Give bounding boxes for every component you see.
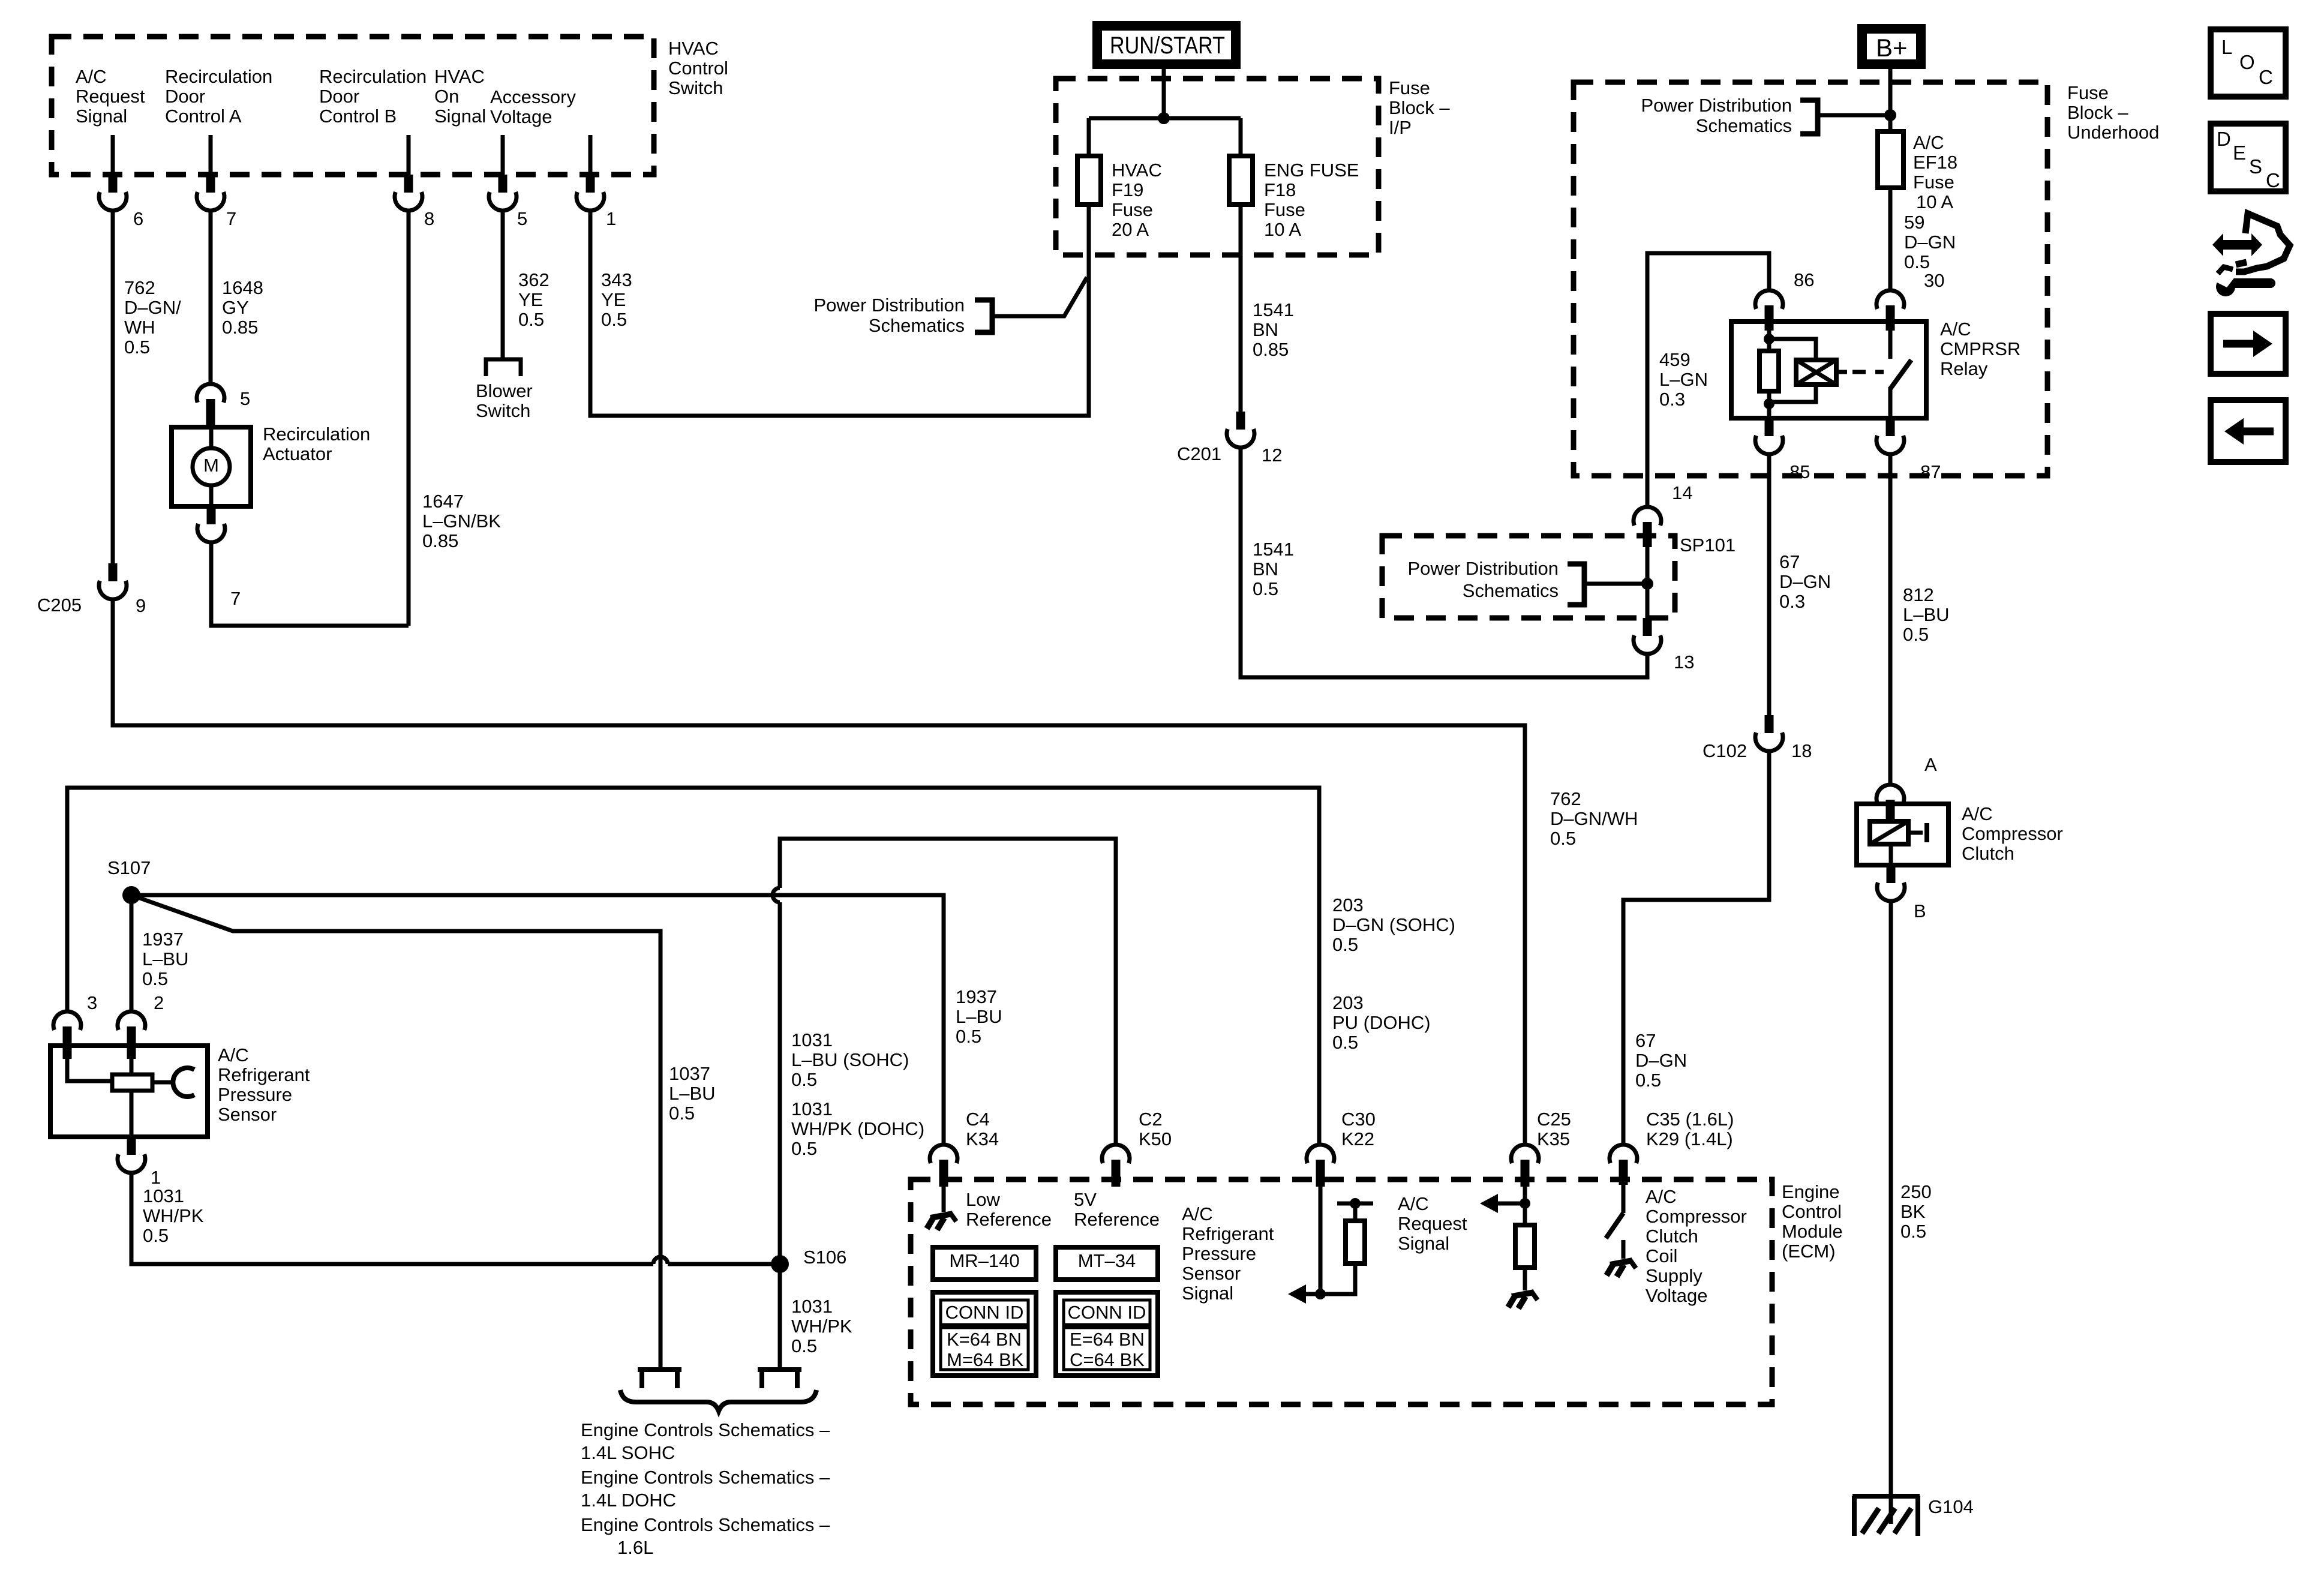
- junction C30: [1315, 1289, 1326, 1299]
- icon arrow right box: [2211, 314, 2286, 374]
- svg-text:1031: 1031: [791, 1029, 833, 1050]
- HVAC Control Switch dashed box: [52, 37, 654, 175]
- connector C102 pin 18: [1765, 715, 1774, 733]
- RUN/START box: [1097, 26, 1236, 64]
- svg-text:0.3: 0.3: [1659, 389, 1685, 410]
- wire 762 D-GN/WH to ECM C25: [113, 599, 1525, 1145]
- svg-text:Recirculation: Recirculation: [165, 66, 272, 87]
- svg-text:0.5: 0.5: [1550, 828, 1576, 849]
- connector relay pin 87: [1886, 418, 1895, 436]
- svg-text:Sensor: Sensor: [218, 1104, 277, 1125]
- svg-text:D–GN: D–GN: [1635, 1050, 1687, 1071]
- svg-text:Signal: Signal: [434, 106, 486, 127]
- svg-text:0.5: 0.5: [601, 309, 627, 330]
- wire 1648 pin7 down to actuator: [209, 211, 213, 384]
- svg-text:L–BU (SOHC): L–BU (SOHC): [791, 1049, 909, 1070]
- svg-text:D–GN/: D–GN/: [124, 297, 181, 318]
- svg-text:A/C: A/C: [1398, 1193, 1429, 1214]
- connector relay pin 85: [1765, 418, 1774, 436]
- svg-text:D–GN: D–GN: [1779, 571, 1831, 592]
- junction B+ feed: [1884, 109, 1896, 121]
- brace: [620, 1390, 816, 1411]
- svg-text:L–BU: L–BU: [1903, 604, 1950, 625]
- svg-text:0.5: 0.5: [1904, 251, 1930, 272]
- svg-text:Refrigerant: Refrigerant: [1182, 1223, 1274, 1244]
- svg-text:0.5: 0.5: [1903, 624, 1929, 645]
- wire 1937 S107 to sensor pin 2: [130, 895, 134, 1011]
- wire to F19 fuse: [1087, 118, 1091, 156]
- wire 1031 sensor pin1 to S106 with hop: [131, 1173, 653, 1264]
- ground G104: [1852, 1494, 1920, 1499]
- svg-text:59: 59: [1904, 212, 1924, 233]
- svg-text:0.85: 0.85: [222, 317, 258, 338]
- svg-text:D–GN (SOHC): D–GN (SOHC): [1332, 914, 1455, 935]
- svg-text:WH: WH: [124, 317, 155, 338]
- svg-text:Low: Low: [966, 1189, 1000, 1210]
- wire 362 pin5 down to blower switch: [501, 211, 505, 358]
- junction relay coil top: [1764, 334, 1774, 344]
- svg-text:C30: C30: [1341, 1109, 1376, 1130]
- svg-text:Fuse: Fuse: [1112, 199, 1153, 220]
- svg-text:BN: BN: [1253, 319, 1278, 340]
- svg-text:C4: C4: [966, 1109, 990, 1130]
- connector clutch pin A: [1876, 785, 1904, 803]
- connector SP101 pin 13: [1643, 618, 1652, 636]
- svg-text:M=64 BK: M=64 BK: [947, 1349, 1024, 1370]
- A/C refrigerant pressure sensor: [50, 1046, 208, 1137]
- svg-text:D: D: [2217, 128, 2231, 150]
- svg-text:Voltage: Voltage: [490, 106, 552, 127]
- junction pull-up top: [1350, 1198, 1361, 1209]
- ground A/C request pulldown: [1512, 1292, 1534, 1296]
- svg-text:Voltage: Voltage: [1646, 1285, 1707, 1306]
- svg-text:1037: 1037: [669, 1063, 710, 1084]
- svg-text:5: 5: [517, 208, 527, 229]
- fuse block I/P dashed box: [1056, 79, 1379, 255]
- svg-text:Power Distribution: Power Distribution: [1641, 95, 1792, 116]
- svg-text:Reference: Reference: [966, 1209, 1052, 1230]
- connector ECM C4 K34: [930, 1145, 957, 1163]
- splice S107: [122, 886, 140, 904]
- svg-text:PU (DOHC): PU (DOHC): [1332, 1012, 1431, 1033]
- svg-text:Compressor: Compressor: [1646, 1206, 1747, 1227]
- connector relay pin 30: [1876, 290, 1904, 309]
- svg-text:812: 812: [1903, 584, 1934, 605]
- connector sensor pin 1: [127, 1137, 136, 1155]
- svg-text:Pressure: Pressure: [1182, 1243, 1256, 1264]
- wire actuator pin7 to control B: [211, 542, 409, 626]
- svg-text:1648: 1648: [222, 277, 263, 298]
- svg-text:CONN ID: CONN ID: [1068, 1302, 1146, 1323]
- box CONN ID right: [1056, 1292, 1158, 1376]
- svg-text:BN: BN: [1253, 559, 1278, 580]
- connector actuator pin 5: [197, 384, 224, 403]
- ECM dashed box: [911, 1179, 1772, 1404]
- connector ECM C35/K29: [1610, 1145, 1637, 1163]
- svg-text:762: 762: [124, 277, 155, 298]
- wire tag pointer to F19 feed: [992, 277, 1087, 316]
- svg-text:Schematics: Schematics: [1463, 580, 1559, 601]
- C30 internal network: [1319, 1187, 1323, 1294]
- terminal to engine controls (1037): [638, 1367, 681, 1372]
- svg-text:Fuse: Fuse: [2067, 82, 2109, 103]
- svg-text:85: 85: [1789, 461, 1810, 482]
- svg-text:0.5: 0.5: [791, 1335, 817, 1356]
- svg-text:(ECM): (ECM): [1782, 1241, 1836, 1262]
- svg-text:Block –: Block –: [2067, 102, 2128, 123]
- svg-text:5: 5: [240, 388, 250, 409]
- svg-text:1031: 1031: [791, 1098, 833, 1119]
- svg-text:0.5: 0.5: [956, 1026, 981, 1047]
- svg-text:1541: 1541: [1253, 299, 1294, 320]
- relay coil: [1769, 339, 1816, 360]
- svg-text:I/P: I/P: [1389, 117, 1412, 138]
- svg-text:D–GN: D–GN: [1904, 232, 1956, 253]
- svg-text:A/C: A/C: [1182, 1203, 1213, 1224]
- svg-text:7: 7: [226, 208, 236, 229]
- svg-text:L–GN/BK: L–GN/BK: [422, 511, 501, 532]
- svg-text:762: 762: [1550, 788, 1581, 809]
- svg-text:Power Distribution: Power Distribution: [813, 295, 965, 316]
- svg-text:1647: 1647: [422, 491, 464, 512]
- svg-text:Engine Controls Schematics –: Engine Controls Schematics –: [581, 1467, 830, 1488]
- svg-text:L–BU: L–BU: [956, 1006, 1002, 1027]
- junction C25: [1520, 1198, 1530, 1209]
- svg-text:Sensor: Sensor: [1182, 1263, 1241, 1284]
- svg-text:13: 13: [1674, 652, 1694, 673]
- svg-text:20 A: 20 A: [1112, 219, 1149, 240]
- svg-text:C35 (1.6L): C35 (1.6L): [1646, 1109, 1734, 1130]
- connector C201 pin 12: [1236, 412, 1245, 430]
- svg-text:0.5: 0.5: [1635, 1070, 1661, 1091]
- connector SP101 pin 14: [1634, 507, 1661, 526]
- svg-text:12: 12: [1262, 445, 1282, 466]
- fuse F18 ENG FUSE 10A: [1229, 156, 1253, 205]
- relay A/C CMPRSR: [1731, 322, 1926, 418]
- svg-text:O: O: [2239, 51, 2255, 73]
- svg-text:0.5: 0.5: [791, 1138, 817, 1159]
- svg-text:Signal: Signal: [1398, 1233, 1449, 1254]
- svg-text:C: C: [2266, 169, 2280, 191]
- C25 internal network: [1523, 1187, 1527, 1225]
- svg-text:WH/PK: WH/PK: [143, 1205, 204, 1226]
- connector ECM C25 K35: [1511, 1145, 1539, 1163]
- svg-text:0.5: 0.5: [142, 968, 168, 989]
- svg-text:F18: F18: [1264, 179, 1296, 200]
- svg-text:WH/PK (DOHC): WH/PK (DOHC): [791, 1118, 924, 1139]
- ground low reference: [930, 1214, 953, 1218]
- wire tag pointer to SP101: [1584, 582, 1647, 586]
- splice S106: [771, 1255, 789, 1273]
- svg-text:0.3: 0.3: [1779, 591, 1805, 612]
- svg-text:S107: S107: [107, 857, 151, 878]
- svg-text:CONN ID: CONN ID: [945, 1302, 1024, 1323]
- connector pin 6: [109, 175, 118, 193]
- svg-text:Engine Controls Schematics –: Engine Controls Schematics –: [581, 1514, 830, 1535]
- svg-text:67: 67: [1635, 1030, 1656, 1051]
- sensor internal network: [67, 1050, 112, 1081]
- svg-text:Control A: Control A: [165, 106, 242, 127]
- svg-text:0.85: 0.85: [1253, 339, 1289, 360]
- svg-text:Clutch: Clutch: [1962, 843, 2014, 864]
- C35 switch to ground: [1622, 1173, 1626, 1213]
- connector sensor pin 3: [53, 1011, 81, 1030]
- svg-text:343: 343: [601, 269, 632, 290]
- svg-text:86: 86: [1794, 269, 1814, 290]
- svg-text:E: E: [2233, 142, 2246, 164]
- svg-text:K22: K22: [1341, 1128, 1374, 1149]
- junction RUN/START bus: [1158, 112, 1170, 124]
- svg-text:1031: 1031: [791, 1296, 833, 1317]
- svg-text:GY: GY: [222, 297, 249, 318]
- svg-text:362: 362: [518, 269, 550, 290]
- wire pin stub inside HVAC switch: [209, 135, 213, 175]
- wire 459 L-GN relay coil feed: [1647, 253, 1769, 507]
- wire 67 D-GN to ECM C35: [1623, 751, 1769, 1145]
- ground clutch coil driver: [1610, 1260, 1632, 1265]
- svg-text:8: 8: [424, 208, 434, 229]
- svg-text:Fuse: Fuse: [1389, 77, 1430, 98]
- box MT-34: [1056, 1247, 1158, 1280]
- svg-text:MR–140: MR–140: [949, 1250, 1019, 1271]
- fuse block underhood dashed box: [1574, 82, 2047, 476]
- svg-text:L: L: [2221, 36, 2232, 58]
- connector pin 7: [206, 175, 215, 193]
- svg-text:C201: C201: [1177, 443, 1221, 464]
- wire 343 YE pin1 to HVAC F19 fuse: [590, 207, 1089, 416]
- svg-text:203: 203: [1332, 992, 1364, 1013]
- svg-text:30: 30: [1924, 270, 1944, 291]
- svg-text:10 A: 10 A: [1916, 191, 1953, 212]
- svg-text:0.5: 0.5: [143, 1225, 169, 1246]
- svg-text:EF18: EF18: [1913, 152, 1957, 173]
- svg-text:Reference: Reference: [1074, 1209, 1160, 1230]
- svg-text:A/C: A/C: [1940, 319, 1971, 340]
- box CONN ID left: [933, 1292, 1036, 1376]
- svg-text:C: C: [2259, 66, 2273, 88]
- svg-text:SP101: SP101: [1680, 535, 1736, 556]
- wire 67 D-GN relay 85 down: [1767, 454, 1771, 715]
- splice SP101 internal wire: [1646, 546, 1650, 618]
- svg-text:C=64 BK: C=64 BK: [1070, 1349, 1145, 1370]
- wire pin stub inside HVAC switch: [501, 135, 505, 175]
- svg-text:18: 18: [1791, 740, 1812, 761]
- svg-text:2: 2: [154, 992, 164, 1013]
- svg-text:Blower: Blower: [476, 380, 533, 401]
- svg-text:K50: K50: [1139, 1128, 1172, 1149]
- svg-text:K=64 BN: K=64 BN: [947, 1329, 1022, 1350]
- wire 812 L-BU relay 87 down: [1888, 454, 1893, 785]
- svg-text:Control B: Control B: [319, 106, 397, 127]
- svg-text:Control: Control: [668, 58, 728, 79]
- clutch coil: [1889, 821, 1893, 824]
- svg-text:Actuator: Actuator: [263, 443, 332, 464]
- svg-text:RUN/START: RUN/START: [1110, 32, 1225, 59]
- connector relay pin 86: [1755, 290, 1783, 309]
- svg-text:1.4L DOHC: 1.4L DOHC: [581, 1490, 676, 1511]
- svg-text:Request: Request: [1398, 1213, 1467, 1234]
- svg-text:Door: Door: [165, 86, 205, 107]
- svg-text:7: 7: [230, 588, 241, 609]
- svg-text:9: 9: [136, 595, 146, 616]
- wire RUN/START feed: [1162, 67, 1166, 118]
- svg-text:Refrigerant: Refrigerant: [218, 1064, 310, 1085]
- connector ECM C2 K50: [1102, 1145, 1130, 1163]
- svg-text:14: 14: [1672, 482, 1692, 503]
- svg-text:E=64 BN: E=64 BN: [1070, 1329, 1145, 1350]
- svg-text:WH/PK: WH/PK: [791, 1316, 852, 1337]
- svg-text:A/C: A/C: [1646, 1186, 1677, 1207]
- wire 762 pin6 down to C205: [111, 211, 115, 563]
- relay coil resistor: [1767, 331, 1771, 351]
- svg-text:C2: C2: [1139, 1109, 1163, 1130]
- svg-text:Relay: Relay: [1940, 358, 1988, 379]
- wire 1541 BN to SP101 pin 13: [1241, 448, 1647, 677]
- wire 1037 L-BU S107 to engine controls: [131, 895, 660, 1370]
- svg-text:CMPRSR: CMPRSR: [1940, 338, 2020, 359]
- connector ECM C30 K22: [1307, 1145, 1334, 1163]
- svg-text:A: A: [1924, 754, 1937, 775]
- wire actuator internal top: [209, 427, 214, 449]
- wire pin stub inside HVAC switch: [407, 135, 411, 175]
- wire 250 BK to G104: [1889, 901, 1893, 1524]
- svg-text:Compressor: Compressor: [1962, 823, 2063, 844]
- svg-text:Control: Control: [1782, 1201, 1842, 1222]
- arrow sensor signal: [1288, 1284, 1306, 1304]
- svg-text:203: 203: [1332, 894, 1364, 915]
- svg-text:Engine Controls Schematics –: Engine Controls Schematics –: [581, 1419, 830, 1440]
- svg-text:Schematics: Schematics: [1696, 115, 1792, 136]
- recirculation actuator M1: [172, 427, 251, 506]
- junction relay coil bottom: [1764, 398, 1774, 409]
- wire pin stub inside HVAC switch: [588, 135, 593, 175]
- svg-text:Fuse: Fuse: [1913, 172, 1954, 193]
- svg-text:S: S: [2249, 155, 2262, 178]
- box MR-140: [933, 1247, 1036, 1280]
- icon DESC box: [2211, 124, 2286, 191]
- svg-text:A/C: A/C: [1913, 132, 1944, 153]
- wire 1647 pin8 down: [407, 211, 411, 626]
- B+ box: [1862, 29, 1921, 64]
- svg-text:A/C: A/C: [1962, 803, 1993, 824]
- svg-text:0.85: 0.85: [422, 530, 458, 551]
- wire S106 riser to ECM C2 with hop: [778, 902, 782, 1264]
- wire tag pointer to B+ feed: [1818, 113, 1890, 118]
- svg-text:L–BU: L–BU: [142, 948, 189, 969]
- svg-text:Supply: Supply: [1646, 1265, 1703, 1286]
- svg-text:D–GN/WH: D–GN/WH: [1550, 808, 1638, 829]
- svg-text:1: 1: [151, 1167, 161, 1188]
- svg-text:Underhood: Underhood: [2067, 122, 2159, 143]
- splice SP101 dashed box: [1382, 536, 1675, 618]
- svg-text:C205: C205: [37, 595, 82, 616]
- svg-text:Pressure: Pressure: [218, 1084, 292, 1105]
- svg-text:MT–34: MT–34: [1078, 1250, 1136, 1271]
- svg-text:0.5: 0.5: [1900, 1221, 1926, 1242]
- connector sensor pin 2: [118, 1011, 145, 1030]
- wire pin stub inside HVAC switch: [111, 135, 115, 175]
- svg-text:Recirculation: Recirculation: [263, 424, 370, 445]
- svg-text:1.4L SOHC: 1.4L SOHC: [581, 1442, 675, 1463]
- connector C205 pin 9: [109, 563, 118, 581]
- svg-text:1.6L: 1.6L: [617, 1537, 653, 1558]
- svg-text:459: 459: [1659, 349, 1691, 370]
- icon wrench/harness: [2212, 233, 2262, 256]
- svg-text:HVAC: HVAC: [668, 38, 719, 59]
- svg-text:87: 87: [1920, 461, 1941, 482]
- svg-text:250: 250: [1900, 1181, 1932, 1202]
- svg-text:K29 (1.4L): K29 (1.4L): [1646, 1128, 1733, 1149]
- svg-text:B+: B+: [1876, 34, 1908, 62]
- icon arrow left box: [2211, 400, 2286, 462]
- svg-text:Switch: Switch: [668, 77, 723, 98]
- wire fuse feed bus: [1089, 116, 1241, 121]
- svg-text:Switch: Switch: [476, 400, 530, 421]
- svg-text:L–BU: L–BU: [669, 1083, 716, 1104]
- svg-text:Engine: Engine: [1782, 1181, 1840, 1202]
- fuse A/C EF18 10A: [1878, 131, 1903, 188]
- svg-text:0.5: 0.5: [669, 1103, 695, 1124]
- svg-text:0.5: 0.5: [1332, 1032, 1358, 1053]
- svg-text:L–GN: L–GN: [1659, 369, 1708, 390]
- fuse F19 HVAC 20A: [1077, 156, 1101, 205]
- svg-text:1937: 1937: [956, 986, 997, 1007]
- svg-text:Clutch: Clutch: [1646, 1226, 1698, 1247]
- svg-text:1541: 1541: [1253, 539, 1294, 560]
- connector actuator pin 7: [207, 506, 216, 524]
- connector pin 8: [404, 175, 413, 193]
- blower switch terminal: [486, 359, 521, 376]
- svg-text:3: 3: [87, 992, 97, 1013]
- svg-text:HVAC: HVAC: [434, 66, 485, 87]
- svg-text:6: 6: [133, 208, 143, 229]
- terminal to engine controls (1031): [758, 1367, 801, 1372]
- wire actuator internal bottom: [209, 484, 214, 506]
- svg-text:1: 1: [606, 208, 616, 229]
- wire F19 down to accessory voltage run: [1087, 205, 1091, 416]
- wire 203 sensor signal loop to ECM C30: [67, 788, 1319, 1145]
- wire to F18 fuse: [1239, 118, 1243, 156]
- svg-text:Schematics: Schematics: [869, 315, 965, 336]
- connector clutch pin B: [1887, 865, 1896, 883]
- A/C compressor clutch: [1857, 804, 1948, 865]
- svg-text:1937: 1937: [142, 929, 184, 950]
- svg-text:Request: Request: [76, 86, 145, 107]
- wire 1541 BN 0.85 from F18: [1239, 205, 1243, 412]
- svg-text:0.5: 0.5: [1332, 934, 1358, 955]
- svg-text:Accessory: Accessory: [490, 86, 576, 107]
- svg-text:K34: K34: [966, 1128, 999, 1149]
- svg-text:Recirculation: Recirculation: [319, 66, 427, 87]
- svg-text:B: B: [1914, 900, 1926, 921]
- connector pin 1: [586, 175, 595, 193]
- svg-text:Coil: Coil: [1646, 1245, 1677, 1266]
- svg-text:0.5: 0.5: [1253, 578, 1278, 599]
- svg-text:S106: S106: [803, 1247, 846, 1268]
- svg-text:0.5: 0.5: [518, 309, 544, 330]
- svg-text:YE: YE: [518, 289, 543, 310]
- svg-text:C25: C25: [1537, 1109, 1571, 1130]
- arrow A/C request signal: [1480, 1194, 1498, 1213]
- wire S107 to ECM C4: [131, 895, 944, 1145]
- svg-text:0.5: 0.5: [791, 1069, 817, 1090]
- svg-text:YE: YE: [601, 289, 626, 310]
- svg-text:Signal: Signal: [1182, 1283, 1233, 1304]
- svg-text:On: On: [434, 86, 459, 107]
- svg-text:HVAC: HVAC: [1112, 160, 1162, 181]
- svg-text:Door: Door: [319, 86, 359, 107]
- junction SP101: [1641, 578, 1653, 590]
